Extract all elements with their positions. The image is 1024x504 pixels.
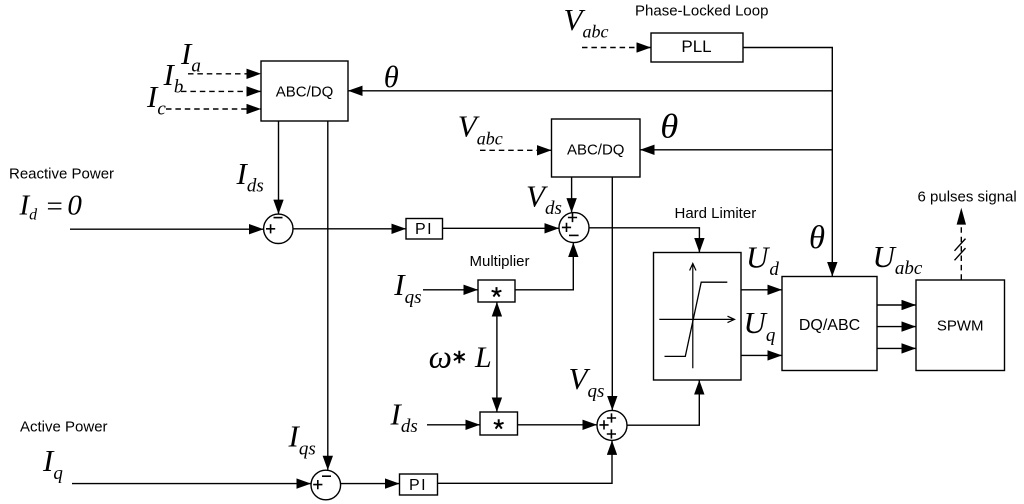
label Id = 0: [19, 190, 83, 224]
summing junction S3 (Vqs sum): [597, 410, 627, 440]
wire S3 to hard limiter bottom: [627, 381, 699, 426]
svg-text:PLL: PLL: [681, 37, 711, 56]
block PI controller U4 (reactive path): [406, 219, 443, 240]
label Uq: [744, 305, 776, 346]
svg-text:Vqs: Vqs: [569, 361, 605, 402]
svg-text:Ia: Ia: [180, 36, 201, 77]
asterisk in omega L label: [454, 351, 465, 364]
arrowhead 6-pulses: [957, 208, 966, 225]
wire DQ/ABC to SPWM phase c: [877, 347, 916, 349]
label PLL text: [681, 37, 711, 56]
label theta at ABC/DQ U3: [660, 109, 678, 146]
svg-text:Iqs: Iqs: [288, 419, 316, 460]
block PLL U2: [651, 33, 743, 62]
label Phase-Locked Loop: [635, 3, 768, 20]
svg-text:Hard Limiter: Hard Limiter: [675, 205, 757, 222]
summing junction S2 (Vds sum): [559, 213, 589, 243]
wire S4 to PI U5: [341, 483, 399, 485]
S1 minus sign: [274, 217, 283, 219]
wire dashed Ia input: [188, 73, 261, 75]
label Multiplier: [470, 253, 530, 270]
label Ic: [146, 79, 166, 120]
label 6 pulses signal: [918, 188, 1017, 205]
svg-text:θ: θ: [384, 59, 399, 94]
hard limiter saturation curve: [665, 282, 728, 356]
wire PLL output right and down to DQ/ABC U7: [743, 48, 832, 277]
svg-text:6 pulses signal: 6 pulses signal: [918, 188, 1017, 205]
svg-text:Ud: Ud: [746, 239, 779, 280]
label Ids at M2: [390, 396, 418, 437]
svg-text:ABC/DQ: ABC/DQ: [567, 141, 625, 158]
label Ids at S1: [236, 156, 264, 197]
label Uabc: [873, 239, 923, 279]
wire PI U5 to S3 bottom: [438, 441, 613, 483]
label ABC/DQ U1 text: [276, 84, 334, 101]
wire dashed Ib input: [181, 90, 261, 92]
block PI controller U5 (active path): [400, 474, 438, 495]
svg-text:SPWM: SPWM: [937, 318, 984, 335]
slash marks on 6-pulses signal: [955, 239, 966, 261]
svg-text:DQ/ABC: DQ/ABC: [799, 317, 860, 334]
wire DQ/ABC to SPWM phase a: [877, 304, 916, 306]
S1 plus sign: [266, 224, 275, 233]
block ABC/DQ U1 (current transform): [261, 61, 348, 121]
svg-text:Vabc: Vabc: [564, 2, 609, 42]
S4 plus sign: [313, 480, 322, 489]
wire dashed 6-pulses output from SPWM: [960, 225, 962, 280]
svg-text:Vabc: Vabc: [458, 108, 503, 148]
wire S2 to hard limiter top: [589, 228, 699, 252]
asterisk in M1: [492, 287, 502, 296]
wire M1 output right and up to S2 bottom: [515, 243, 573, 290]
label Iqs at M1: [393, 267, 421, 308]
label Hard Limiter: [675, 205, 757, 222]
svg-text:ABC/DQ: ABC/DQ: [276, 84, 334, 101]
block multiplier M1: [478, 280, 515, 302]
svg-text:L: L: [474, 341, 492, 374]
svg-text:Multiplier: Multiplier: [470, 253, 530, 270]
S2 plus sign left: [562, 223, 571, 232]
block ABC/DQ U3 (voltage transform): [552, 119, 641, 177]
S2 plus sign top: [568, 213, 577, 222]
label omega L: [429, 340, 492, 376]
svg-text:Ids: Ids: [390, 396, 418, 437]
wire Iqs input to multiplier M1: [423, 289, 478, 291]
wire ABC/DQ U3 Vqs output down to S3: [611, 177, 613, 410]
label theta at DQ/ABC U7: [809, 220, 825, 256]
wire Iq input to S4: [72, 483, 311, 485]
wire DQ/ABC to SPWM phase b: [877, 326, 916, 328]
label Ib: [163, 57, 184, 98]
wire theta branch to ABC/DQ U3: [641, 149, 833, 151]
svg-text:Id: Id: [19, 190, 39, 224]
svg-text:Uabc: Uabc: [873, 239, 923, 279]
hard limiter vertical axis: [690, 264, 696, 369]
wire M2 output to S3 left: [518, 424, 597, 426]
label Vabc at ABC/DQ U3: [458, 108, 503, 148]
label ABC/DQ U3 text: [567, 141, 625, 158]
svg-text:θ: θ: [660, 109, 678, 146]
label Ia: [180, 36, 201, 77]
asterisk in M2: [494, 419, 504, 428]
wire theta branch to ABC/DQ U1: [349, 90, 833, 92]
label Ud: [746, 239, 779, 280]
label Iq: [42, 443, 63, 484]
summing junction S4 (active error): [311, 470, 341, 500]
hard limiter horizontal axis: [659, 316, 734, 322]
svg-text:θ: θ: [809, 220, 825, 256]
label theta at ABC/DQ U1: [384, 59, 399, 94]
svg-text:Phase-Locked Loop: Phase-Locked Loop: [635, 3, 768, 20]
wire dashed Vabc input to PLL: [582, 47, 651, 49]
label PI U4 text: [415, 221, 433, 238]
label Vqs: [569, 361, 605, 402]
label Iqs at S4: [288, 419, 316, 460]
wire ABC/DQ U3 Vds output down to S2: [571, 177, 573, 212]
label DQ/ABC U7 text: [799, 317, 860, 334]
label SPWM U8 text: [937, 318, 984, 335]
wire ABC/DQ U1 Ids output down to S1: [278, 121, 280, 214]
S3 plus sign top: [607, 413, 616, 422]
wire PI U4 to S2: [443, 227, 559, 229]
wire hard limiter Uq output to DQ/ABC U7: [741, 354, 782, 356]
svg-text:Ids: Ids: [236, 156, 264, 197]
svg-text:PI: PI: [409, 477, 427, 494]
svg-text:Iqs: Iqs: [393, 267, 421, 308]
svg-text:Iq: Iq: [42, 443, 63, 484]
svg-text:Reactive Power: Reactive Power: [9, 166, 114, 183]
block multiplier M2: [480, 412, 518, 435]
S3 plus sign bottom: [607, 429, 616, 438]
svg-text:Vds: Vds: [526, 178, 562, 219]
svg-text:=: =: [45, 190, 65, 222]
S4 minus sign: [322, 475, 331, 477]
svg-text:0: 0: [67, 190, 82, 222]
block SPWM U8: [916, 280, 1005, 371]
wire dashed Ic input: [166, 108, 261, 110]
summing junction S1 (reactive error): [264, 214, 293, 243]
wire Id=0 input to S1: [70, 228, 263, 230]
label Vds: [526, 178, 562, 219]
wire Ids input to multiplier M2: [427, 424, 480, 426]
label Reactive Power: [9, 166, 114, 183]
wire ABC/DQ U1 Iqs output down to S4: [327, 121, 329, 470]
S2 minus sign bottom: [569, 234, 579, 236]
wire hard limiter Ud output to DQ/ABC U7: [741, 289, 782, 291]
svg-text:ω: ω: [429, 340, 452, 376]
block DQ/ABC U7: [782, 277, 877, 371]
label PI U5 text: [409, 477, 427, 494]
wire dashed Vabc input to ABC/DQ U3: [480, 149, 551, 151]
svg-text:PI: PI: [415, 221, 433, 238]
S3 plus sign left: [599, 420, 608, 429]
label Vabc at PLL: [564, 2, 609, 42]
label Active Power: [20, 419, 108, 436]
wire S1 to PI U4: [293, 228, 406, 230]
block hard limiter U6: [654, 253, 742, 381]
wire omega-L double arrow between M1 and M2: [496, 303, 498, 412]
svg-text:Uq: Uq: [744, 305, 776, 346]
svg-text:Active Power: Active Power: [20, 419, 108, 436]
